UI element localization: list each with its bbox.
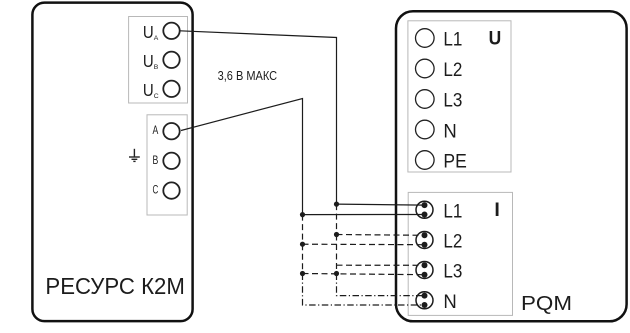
- terminal C: [163, 182, 179, 198]
- wire phase column dashed segment L1-L2: [336, 204, 338, 234]
- wire L3 bottom dashed: [303, 274, 425, 275]
- junction return/L3: [300, 271, 305, 276]
- wire return column dashed segment L1-L2: [302, 215, 304, 245]
- current output terminal block (left): [147, 115, 187, 215]
- device PQM enclosure: [396, 11, 627, 321]
- svg-text:I: I: [494, 199, 499, 221]
- terminal L3 (I): [416, 262, 433, 279]
- terminal Ub label: [143, 51, 159, 71]
- wire N bottom dash-dot: [303, 274, 425, 306]
- svg-text:L3: L3: [443, 89, 462, 111]
- terminal L2 (I): [416, 232, 433, 249]
- wire L3 top dashed: [337, 264, 425, 266]
- svg-text:B: B: [153, 153, 159, 167]
- terminal N (I): [416, 292, 433, 309]
- terminal Uc label: [143, 80, 159, 100]
- svg-text:3,6 В МАКС: 3,6 В МАКС: [218, 68, 278, 83]
- svg-text:L1: L1: [443, 200, 462, 222]
- current input terminal block (right): [408, 192, 512, 315]
- svg-text:U: U: [143, 51, 154, 71]
- terminal L1 (I): [416, 201, 433, 218]
- svg-text:РЕСУРС К2М: РЕСУРС К2М: [45, 273, 185, 299]
- device РЕСУРС К2М enclosure: [32, 3, 192, 322]
- terminal A: [163, 123, 179, 139]
- junction phase/L2: [334, 232, 339, 237]
- terminal Ub: [163, 52, 179, 68]
- svg-text:A: A: [154, 35, 159, 42]
- wire phase column dashed segment L2-L3: [336, 235, 338, 274]
- svg-text:PE: PE: [443, 150, 466, 172]
- terminal Uc: [163, 81, 179, 97]
- svg-text:B: B: [154, 64, 159, 71]
- svg-text:N: N: [443, 121, 456, 143]
- wire L2 bottom dashed: [303, 243, 425, 246]
- svg-text:C: C: [154, 93, 159, 100]
- terminal PE (U): [416, 151, 435, 170]
- terminal L2 (U): [416, 59, 435, 78]
- svg-text:L3: L3: [443, 261, 462, 283]
- wire N top dash-dot: [337, 274, 425, 296]
- svg-text:L2: L2: [443, 231, 462, 253]
- terminal L1 (U): [416, 29, 435, 48]
- junction return/L1: [300, 212, 305, 217]
- svg-text:A: A: [153, 123, 159, 137]
- junction phase/L3: [334, 271, 339, 276]
- wire L1 bottom horizontal: [303, 214, 425, 216]
- wire A to L1 bottom (current return): [181, 99, 303, 215]
- svg-text:C: C: [153, 183, 159, 197]
- junction phase/L1: [334, 202, 339, 207]
- wire L2 top dashed: [337, 234, 425, 237]
- terminal Ua label: [143, 22, 159, 42]
- svg-text:U: U: [143, 80, 154, 100]
- wire L1 top horizontal: [337, 204, 425, 205]
- terminal Ua: [163, 23, 179, 39]
- svg-text:U: U: [143, 22, 154, 42]
- terminal N (U): [416, 120, 435, 139]
- voltage input terminal block (right): [408, 21, 511, 172]
- terminal L3 (U): [416, 90, 435, 109]
- wire Ua to L1 top (phase lead): [180, 31, 337, 204]
- ground symbol: [129, 149, 140, 162]
- svg-text:L2: L2: [443, 59, 462, 81]
- svg-text:U: U: [489, 27, 502, 49]
- junction return/L2: [300, 242, 305, 247]
- svg-text:L1: L1: [443, 28, 462, 50]
- terminal B: [163, 153, 179, 169]
- svg-text:N: N: [443, 291, 456, 313]
- wire return column dashed segment L2-L3: [302, 244, 304, 273]
- svg-text:PQM: PQM: [521, 292, 572, 315]
- voltage output terminal block (left): [129, 17, 188, 104]
